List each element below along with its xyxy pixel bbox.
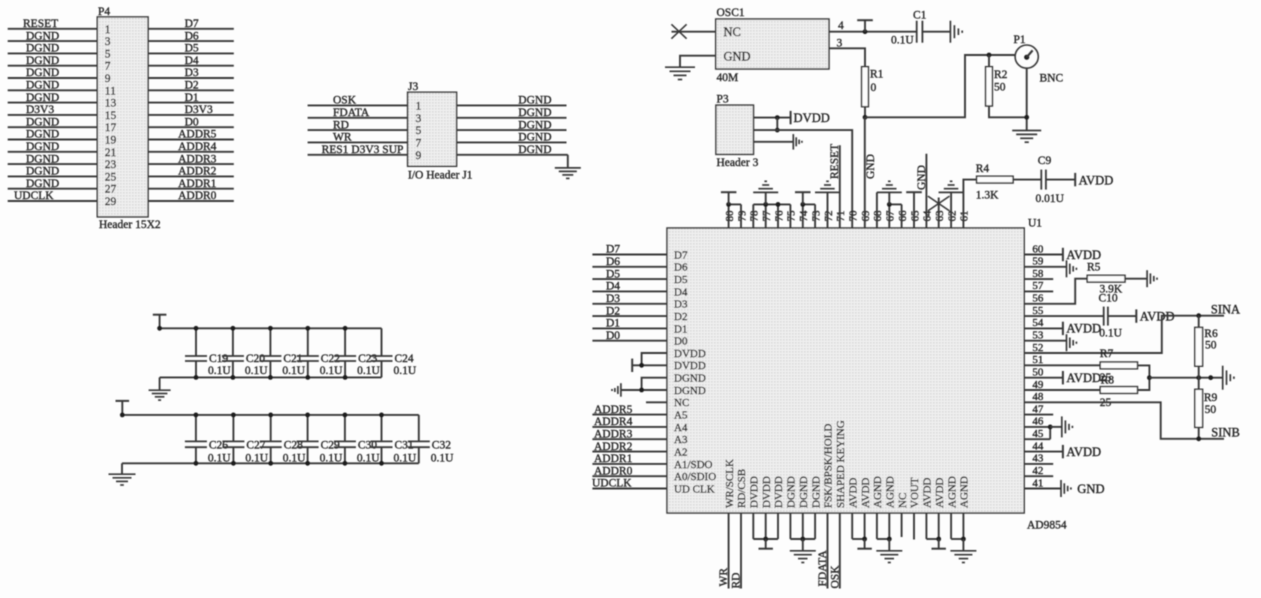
wire J3 pin 8 right net DGND: [457, 141, 567, 143]
svg-text:ADDR0: ADDR0: [594, 465, 633, 477]
svg-text:OSK: OSK: [829, 565, 841, 589]
wire R4 to C9: [1013, 179, 1041, 181]
wire P4 pin 7 left net DGND: [8, 65, 98, 67]
wire P4 pin 21 left net DGND: [8, 151, 98, 153]
svg-text:RESET: RESET: [23, 18, 58, 30]
oscillator OSC1 body: [716, 19, 829, 69]
svg-text:0: 0: [871, 82, 877, 94]
wire U1 pin RD/CSB net RD: [740, 513, 742, 589]
svg-text:21: 21: [105, 147, 117, 159]
capacitor C19: [195, 328, 197, 356]
junction C31 bottom rail 2: [379, 461, 384, 466]
junction node SINA: [1196, 313, 1201, 318]
connector J3 I/O Header body: [408, 92, 457, 166]
svg-text:A3: A3: [674, 434, 688, 446]
power pin symbol below AVDD pair 1: [864, 539, 866, 549]
svg-text:9: 9: [416, 150, 422, 162]
svg-text:0.1U: 0.1U: [208, 365, 231, 377]
power pin symbol above clock net: [857, 19, 873, 21]
junction bottom AVDD pair 1: [862, 537, 867, 542]
wire U1 DGND pin 11 tie: [642, 378, 667, 390]
wire P3 pin 3 to ground: [754, 141, 794, 143]
svg-text:13: 13: [105, 98, 117, 110]
junction R1 bottom node: [863, 115, 868, 120]
svg-text:DGND: DGND: [798, 476, 810, 508]
junction pin 80 tie: [726, 202, 731, 207]
svg-text:ADDR4: ADDR4: [178, 141, 217, 153]
ground symbol below AGND pair 2: [962, 539, 964, 551]
svg-text:1: 1: [105, 24, 111, 36]
wire P4 pin 17 left net DGND: [8, 126, 98, 128]
wire net ADDR3 to U1: [592, 438, 667, 440]
svg-text:62: 62: [946, 211, 958, 222]
svg-text:59: 59: [1032, 256, 1044, 268]
svg-text:0.1U: 0.1U: [320, 453, 343, 465]
svg-text:42: 42: [1032, 465, 1043, 477]
wire mid node to ground: [1149, 377, 1222, 379]
svg-text:RD/CSB: RD/CSB: [736, 469, 748, 508]
junction R7-R8 mid node: [1147, 375, 1152, 380]
svg-text:79: 79: [736, 210, 748, 222]
junction bottom DGND tie: [800, 537, 805, 542]
wire P4 pin 25 left net DGND: [8, 175, 98, 177]
svg-text:50: 50: [994, 82, 1006, 94]
svg-text:UD CLK: UD CLK: [674, 483, 715, 495]
connector P4 Header 15X2 body: [97, 17, 148, 217]
svg-text:0.1U: 0.1U: [357, 365, 380, 377]
svg-text:D4: D4: [674, 286, 688, 298]
svg-text:D7: D7: [674, 249, 688, 261]
svg-text:9: 9: [105, 73, 111, 85]
svg-text:50: 50: [1205, 404, 1217, 416]
wire U1 pin 60 to AVDD: [1024, 254, 1062, 256]
junction R2 top: [987, 53, 992, 58]
svg-text:D3: D3: [674, 299, 688, 311]
svg-text:58: 58: [1032, 268, 1044, 280]
junction DVDD tie: [639, 363, 644, 368]
svg-text:47: 47: [1032, 403, 1044, 415]
svg-text:0.1U: 0.1U: [245, 453, 268, 465]
wire net D0 to U1: [592, 340, 667, 342]
svg-text:R4: R4: [976, 163, 990, 175]
svg-text:P4: P4: [98, 6, 110, 18]
junction DGND tie: [639, 388, 644, 393]
wire P4 pin 6 right net D5: [148, 52, 234, 54]
svg-text:17: 17: [105, 122, 117, 134]
svg-text:RESET: RESET: [829, 144, 841, 179]
svg-text:SHAPED KEYING: SHAPED KEYING: [835, 420, 847, 508]
wire P4 pin 3 left net DGND: [8, 40, 98, 42]
svg-text:5: 5: [416, 125, 422, 137]
wire C10 to AVDD: [1108, 315, 1136, 317]
svg-text:VOUT: VOUT: [909, 477, 921, 508]
svg-text:U1: U1: [1028, 218, 1042, 230]
wire U1 DVDD pin 9 tie: [642, 353, 667, 365]
svg-text:60: 60: [1032, 243, 1044, 255]
junction C26 bottom rail 2: [194, 461, 199, 466]
power symbol AVDD pin 50: [1062, 371, 1064, 384]
wire net UDCLK to U1: [592, 488, 667, 490]
svg-text:DVDD: DVDD: [674, 348, 706, 360]
capacitor C26: [195, 415, 197, 442]
svg-text:Header 15X2: Header 15X2: [99, 219, 161, 231]
junction C30 top rail 2: [343, 413, 348, 418]
svg-text:R9: R9: [1204, 392, 1218, 404]
svg-text:0.1U: 0.1U: [891, 35, 914, 47]
ground symbol below P1: [1012, 130, 1041, 132]
wire P4 pin 26 right net ADDR2: [148, 175, 234, 177]
ground symbol right of P3: [792, 134, 794, 150]
junction C28 bottom rail 2: [268, 461, 273, 466]
wire U1 pin 48 to SINB node: [1024, 402, 1224, 439]
junction C27 bottom rail 2: [231, 461, 236, 466]
wire J3 pin 6 right net DGND: [457, 129, 567, 131]
wire P4 pin 23 left net DGND: [8, 163, 98, 165]
junction C20 bottom rail: [231, 375, 236, 380]
resistor R6: [1198, 316, 1200, 328]
svg-text:80: 80: [724, 210, 736, 222]
wire P4 pin 30 right net ADDR0: [148, 200, 234, 202]
ground symbol pin 41: [1060, 480, 1062, 497]
svg-text:D6: D6: [674, 262, 688, 274]
wire U1 pin 69 net GND to R1 node: [864, 117, 866, 228]
svg-text:R8: R8: [1101, 375, 1115, 387]
wire U1 pin 56 to R5: [1024, 279, 1087, 304]
svg-text:74: 74: [798, 210, 810, 222]
wire P3 pin1-pin2 tie: [776, 118, 778, 131]
svg-text:WR/SCLK: WR/SCLK: [724, 459, 736, 508]
svg-text:AVDD: AVDD: [847, 478, 859, 508]
power symbol AVDD at C10: [1135, 309, 1137, 322]
wire J3 pin 7 left net WR: [308, 141, 408, 143]
svg-text:55: 55: [1032, 305, 1044, 317]
ground symbol below J3: [555, 167, 581, 169]
svg-text:FDATA: FDATA: [333, 107, 370, 119]
svg-text:C24: C24: [395, 353, 414, 365]
junction node SINB: [1196, 436, 1201, 441]
wire U1 pin 55 through C10: [1024, 315, 1103, 317]
svg-text:DGND: DGND: [26, 43, 59, 55]
svg-text:R1: R1: [870, 69, 884, 81]
svg-text:WR: WR: [718, 568, 730, 587]
wire P4 pin 11 left net DGND: [8, 89, 98, 91]
svg-text:A4: A4: [674, 422, 688, 434]
svg-text:AGND: AGND: [872, 476, 884, 508]
svg-text:D2: D2: [606, 305, 620, 317]
junction C30 bottom rail 2: [343, 461, 348, 466]
wire P4 pin 20 right net ADDR5: [148, 139, 234, 141]
svg-text:D0: D0: [674, 336, 688, 348]
resistor R5: [1087, 275, 1125, 282]
svg-text:AVDD: AVDD: [1066, 248, 1101, 262]
junction C20 top rail: [231, 326, 236, 331]
svg-text:D4: D4: [606, 281, 620, 293]
svg-text:4: 4: [838, 20, 844, 32]
svg-text:P3: P3: [717, 93, 729, 105]
svg-text:AVDD: AVDD: [922, 478, 934, 508]
svg-text:56: 56: [1032, 293, 1044, 305]
svg-text:53: 53: [1032, 330, 1044, 342]
ground symbol pin 59: [1066, 260, 1068, 277]
svg-text:DGND: DGND: [786, 476, 798, 508]
wire U1 pin 63 stub: [938, 198, 940, 229]
svg-text:AGND: AGND: [885, 476, 897, 508]
wire P4 pin 9 left net DGND: [8, 77, 98, 79]
wire net D4 to U1: [592, 290, 667, 292]
wire U1 pin 47 stub: [1024, 414, 1053, 416]
wire U1 bottom AGND pair 1 tie: [876, 513, 878, 539]
wire U1 bottom AVDD pair 1 tie: [851, 513, 853, 539]
svg-text:68: 68: [872, 210, 884, 222]
ground symbol below AGND pair 1: [888, 539, 890, 551]
svg-text:63: 63: [934, 210, 946, 222]
svg-text:BNC: BNC: [1040, 73, 1064, 85]
wire P4 pin 29 left net UDCLK: [8, 200, 98, 202]
svg-text:69: 69: [860, 210, 872, 222]
svg-text:15: 15: [105, 110, 117, 122]
svg-text:0.1U: 0.1U: [245, 365, 268, 377]
junction P3 pin1: [775, 115, 780, 120]
svg-text:DGND: DGND: [518, 144, 551, 156]
svg-text:C9: C9: [1038, 155, 1052, 167]
svg-text:OSK: OSK: [333, 95, 357, 107]
svg-text:40M: 40M: [717, 72, 739, 84]
svg-text:DGND: DGND: [518, 95, 551, 107]
no-connect X on pin 63: [928, 196, 950, 211]
svg-text:D3: D3: [606, 293, 620, 305]
svg-text:ADDR5: ADDR5: [594, 404, 633, 416]
wire OSC1 pin 3 to R1: [829, 48, 865, 66]
svg-text:0.01U: 0.01U: [1036, 193, 1065, 205]
svg-text:C1: C1: [913, 10, 927, 22]
svg-text:DGND: DGND: [518, 132, 551, 144]
svg-text:66: 66: [897, 210, 909, 222]
svg-text:71: 71: [835, 211, 847, 222]
wire U1 bottom DVDD pins tie: [752, 513, 754, 539]
svg-text:D6: D6: [185, 30, 199, 42]
svg-text:DVDD: DVDD: [794, 111, 830, 125]
wire U1 bottom NC stub: [901, 513, 903, 537]
wire bottom rail 2 drop to ground: [121, 463, 123, 474]
wire U1 pin 57 stub: [1024, 290, 1053, 292]
wire U1 pin 72 to ground: [827, 192, 829, 228]
junction R6-R9 node: [1196, 375, 1201, 380]
capacitor C9: [1040, 170, 1042, 190]
svg-text:46: 46: [1032, 416, 1044, 428]
power symbol AVDD pin 54: [1062, 322, 1064, 335]
wire pin 46 tie to ground symbol: [1050, 426, 1061, 428]
junction pin 67 tie: [887, 202, 892, 207]
IC U1 AD9854 body: [667, 228, 1024, 513]
svg-text:61: 61: [959, 211, 971, 222]
resistor R9: [1198, 378, 1200, 390]
capacitor C20: [232, 328, 234, 356]
svg-text:D5: D5: [606, 268, 620, 280]
svg-text:AVDD: AVDD: [1066, 445, 1101, 459]
svg-text:0.1U: 0.1U: [208, 453, 231, 465]
ground symbol right of C1: [949, 21, 951, 43]
svg-text:AVDD: AVDD: [1066, 322, 1101, 336]
svg-text:R7: R7: [1100, 348, 1114, 360]
resistor R4: [977, 176, 1014, 183]
svg-text:D5: D5: [185, 43, 199, 55]
svg-text:50: 50: [1032, 367, 1044, 379]
svg-text:0.1U: 0.1U: [394, 453, 417, 465]
svg-text:D3: D3: [185, 67, 199, 79]
no-connect X on OSC1 NC pin: [671, 24, 686, 38]
junction on clock net at power stem: [863, 29, 868, 34]
svg-text:1.3K: 1.3K: [976, 190, 999, 202]
svg-text:49: 49: [1032, 379, 1044, 391]
ground symbol pin 53: [1066, 334, 1068, 351]
svg-text:50: 50: [1205, 339, 1217, 351]
wire net ADDR4 to U1: [592, 426, 667, 428]
junction at ground branch: [1208, 375, 1213, 380]
wire U1 pin 64 net GND: [925, 154, 927, 228]
svg-text:0.1U: 0.1U: [431, 453, 454, 465]
svg-text:A1/SDO: A1/SDO: [674, 459, 713, 471]
svg-text:D5: D5: [674, 274, 688, 286]
svg-text:D2: D2: [185, 80, 199, 92]
svg-text:RD: RD: [333, 119, 349, 131]
power pin symbol above C26 bank: [116, 400, 130, 402]
junction bottom AGND pair 1: [887, 537, 892, 542]
svg-text:48: 48: [1032, 391, 1044, 403]
svg-text:GND: GND: [1077, 482, 1104, 496]
wire top rail of C26-C32 bank: [122, 414, 419, 416]
svg-text:1: 1: [416, 100, 422, 112]
svg-text:0.1U: 0.1U: [1099, 328, 1122, 340]
svg-text:D0: D0: [185, 116, 199, 128]
resistor R1: [862, 67, 869, 107]
svg-text:DGND: DGND: [26, 80, 59, 92]
svg-text:J3: J3: [408, 81, 418, 93]
svg-text:ADDR0: ADDR0: [178, 190, 217, 202]
power pin symbol below DVDD pins: [765, 539, 767, 549]
svg-text:ADDR4: ADDR4: [594, 416, 633, 428]
svg-text:C10: C10: [1099, 293, 1118, 305]
svg-text:ADDR1: ADDR1: [178, 178, 217, 190]
wire U1 pin 52 to SINA node: [1024, 316, 1224, 353]
svg-text:D1: D1: [185, 92, 199, 104]
svg-text:SINB: SINB: [1211, 425, 1239, 439]
wire P4 pin 2 right net D7: [148, 28, 234, 30]
wire R2 top stub: [988, 55, 990, 67]
svg-text:78: 78: [749, 210, 761, 222]
junction bottom AVDD pair 2: [936, 537, 941, 542]
wire top rail of C19-C24 bank: [160, 327, 382, 329]
wire U1 bottom VOUT stub: [913, 513, 915, 540]
wire U1 pin 53 to ground: [1024, 340, 1066, 342]
wire net D2 to U1: [592, 315, 667, 317]
svg-text:AVDD: AVDD: [860, 478, 872, 508]
svg-text:AVDD: AVDD: [1079, 173, 1114, 187]
svg-text:11: 11: [105, 85, 116, 97]
wire P4 pin 14 right net D1: [148, 102, 234, 104]
svg-text:UDCLK: UDCLK: [592, 478, 632, 490]
svg-text:DGND: DGND: [674, 385, 706, 397]
wire P4 pin 16 right net D3V3: [148, 114, 234, 116]
svg-text:R6: R6: [1204, 328, 1218, 340]
svg-text:D1: D1: [674, 323, 687, 335]
svg-text:GND: GND: [916, 165, 928, 190]
svg-text:GND: GND: [865, 154, 877, 179]
connector P1 center contact: [1024, 55, 1029, 60]
wire P4 pin 22 right net ADDR4: [148, 151, 234, 153]
svg-text:70: 70: [848, 210, 860, 222]
wire P4 pin 19 left net DGND: [8, 139, 98, 141]
svg-text:ADDR2: ADDR2: [594, 441, 633, 453]
wire U1 NC pin stub: [646, 401, 667, 403]
svg-text:76: 76: [773, 210, 785, 222]
wire P4 pin 15 left net D3V3: [8, 114, 98, 116]
svg-text:65: 65: [909, 210, 921, 222]
wire J3 pin 2 right net DGND: [457, 104, 567, 106]
svg-text:27: 27: [105, 184, 117, 196]
wire U1 pins 46-45 tie to ground: [1024, 426, 1050, 428]
power symbol AVDD at C9: [1074, 173, 1076, 186]
junction C21 top rail: [268, 326, 273, 331]
wire J3 pin 10 down to ground: [567, 155, 569, 168]
wire U1 pin 59 to ground: [1024, 266, 1066, 268]
svg-text:DGND: DGND: [26, 30, 59, 42]
svg-text:0.1U: 0.1U: [282, 365, 305, 377]
svg-text:41: 41: [1032, 477, 1043, 489]
svg-text:0.1U: 0.1U: [320, 365, 343, 377]
capacitor C31: [381, 415, 383, 442]
svg-text:C20: C20: [246, 353, 265, 365]
wire C1 to ground: [922, 31, 950, 33]
wire P3 pin 2 to U1 pin 70: [754, 130, 853, 228]
wire net ADDR2 to U1: [592, 451, 667, 453]
wire U1 pin 50 to AVDD: [1024, 377, 1062, 379]
svg-text:ADDR2: ADDR2: [178, 166, 217, 178]
capacitor C28: [270, 415, 272, 442]
ground symbol right of R5: [1146, 270, 1148, 287]
ground symbol above pin 67: [888, 192, 890, 204]
wire P4 pin 28 right net ADDR1: [148, 188, 234, 190]
svg-text:5: 5: [105, 48, 111, 60]
wire OSC1 pin 4 to C1: [829, 31, 917, 33]
svg-text:SINA: SINA: [1211, 302, 1240, 316]
power symbol AVDD pin 60: [1062, 248, 1064, 261]
junction C27 top rail 2: [231, 413, 236, 418]
wire bottom rail drop to ground: [159, 377, 161, 390]
power symbol AVDD pin 44: [1062, 445, 1064, 458]
svg-text:DGND: DGND: [26, 166, 59, 178]
svg-text:7: 7: [105, 61, 111, 73]
wire J3 pin 10 right net DGND: [457, 154, 568, 156]
capacitor C27: [232, 415, 234, 442]
svg-text:I/O Header J1: I/O Header J1: [408, 169, 473, 181]
capacitor C10: [1103, 307, 1105, 326]
capacitor C21: [269, 328, 271, 356]
power symbol DVDD left of U1: [631, 359, 633, 372]
wire P4 pin 27 left net DGND: [8, 188, 98, 190]
wire C9 to AVDD: [1046, 179, 1075, 181]
svg-text:RES1 D3V3 SUP: RES1 D3V3 SUP: [322, 144, 404, 156]
power pin symbol above pin 74: [795, 191, 811, 193]
wire U1 DGND pin 12 to ground: [622, 389, 668, 391]
svg-text:DGND: DGND: [26, 92, 59, 104]
junction C26 top rail 2: [194, 413, 199, 418]
junction C22 top rail: [305, 326, 310, 331]
wire R5 to ground: [1125, 278, 1147, 280]
wire U1 pin 51 to R7: [1024, 364, 1100, 366]
junction C29 top rail 2: [305, 413, 310, 418]
svg-text:C22: C22: [321, 353, 340, 365]
svg-text:WR: WR: [333, 132, 352, 144]
